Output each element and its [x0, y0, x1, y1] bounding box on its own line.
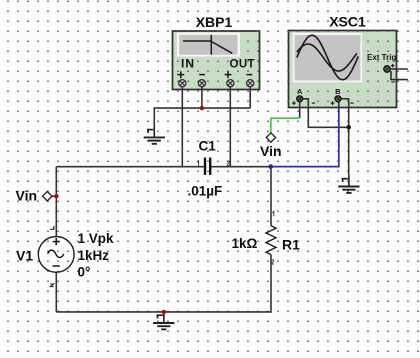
svg-text:XBP1: XBP1: [196, 14, 233, 30]
svg-text:OUT: OUT: [230, 59, 255, 71]
svg-text:C1: C1: [199, 139, 217, 154]
svg-text:.01µF: .01µF: [188, 184, 223, 199]
svg-text:XSC1: XSC1: [329, 14, 366, 30]
svg-text:IN: IN: [181, 57, 195, 71]
svg-text:B: B: [335, 87, 341, 96]
svg-text:R1: R1: [282, 237, 300, 253]
svg-text:Vin: Vin: [260, 143, 282, 159]
svg-text:V1: V1: [16, 247, 33, 263]
svg-text:0°: 0°: [78, 265, 91, 280]
svg-text:A: A: [297, 87, 303, 96]
svg-text:1kΩ: 1kΩ: [232, 236, 258, 251]
svg-text:Ext Trig: Ext Trig: [367, 53, 396, 62]
svg-text:Vin: Vin: [16, 188, 38, 204]
svg-text:1 Vpk: 1 Vpk: [78, 231, 115, 246]
svg-text:1kHz: 1kHz: [78, 248, 110, 263]
